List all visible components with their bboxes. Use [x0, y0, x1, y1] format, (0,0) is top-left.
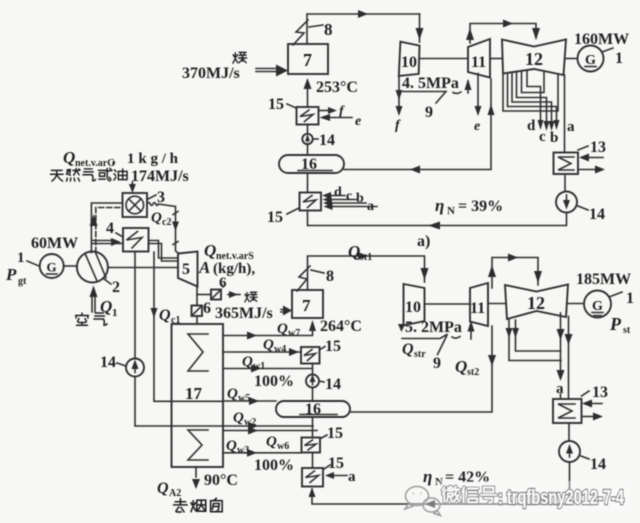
wire: turbine 10 exhaust arrow f (top cycle) [395, 77, 403, 134]
wire: feedwater into boiler 253°C (top cycle) [304, 78, 358, 107]
fuel feeder box 6 (coal branch) with 煤 [197, 275, 257, 302]
glyph 信 (watermark-2) [462, 487, 477, 502]
shaft wire 12-G (top cycle) [566, 58, 578, 60]
turbine 5 (gas turbine expander) [178, 252, 198, 287]
glyph 煤 (coal, bottom cycle) [245, 292, 257, 302]
turbine 11 (top cycle IP) [468, 39, 490, 78]
air duct wire: branch to heat exchanger 4 [92, 238, 123, 246]
turbine 12 (bottom cycle LP double-flow) [505, 285, 568, 320]
wire: deaerator 16 to turbine 11 (bottom cycle) [350, 326, 496, 412]
wire: boiler top to HP turbine 10 (main steam, top cycle) [307, 10, 424, 44]
label eta_N = 39% (top cycle efficiency) [435, 196, 503, 217]
shaft wire 10-11 (bottom cycle) [425, 303, 471, 305]
label block Qnet.v.arG 1kg/h / 天然气或油 174MJ/s [50, 148, 188, 185]
heater 15 (bottom cycle mid) [302, 417, 344, 468]
shaft wire 11-12 (bottom cycle) [488, 303, 505, 305]
shaft wire G-compressor [64, 265, 77, 267]
wire: reheat line 11 to 12 (bottom cycle) [488, 254, 542, 289]
glyph 去 (to chimney-1) [174, 499, 188, 512]
label Qw6 [266, 434, 289, 452]
wire Qw5 into deaerator [223, 386, 276, 405]
turbine 10 (bottom cycle HP) [404, 284, 425, 326]
label Qnet.v.arS / A (kg/h) [198, 241, 255, 277]
heat exchanger 4 (fuel preheater) [106, 220, 149, 252]
label Qc1 (flue gas heat) [159, 307, 180, 326]
compressor 2 (gas turbine) [77, 252, 120, 297]
chimney 8 (top cycle) [293, 20, 333, 45]
flue gas outlet 90°C 去烟囱 QA2 [157, 467, 238, 512]
label 365MJ/s with double arrow into boiler 7 [215, 305, 292, 322]
glyph 气 (natural gas-3) [83, 169, 96, 181]
shaft wire 12-G (bottom cycle) [568, 303, 584, 305]
pump 14 (bottom cycle right) [559, 423, 606, 473]
label Qst2 [455, 357, 479, 378]
feedwater wire + pump 14 (bottom cycle far left) [100, 252, 223, 427]
shaft wire 11-12 (top cycle) [490, 58, 502, 60]
watermark text 微信号: trqfbsny2012-7-4 [442, 486, 624, 509]
feedwater heater 15 (top cycle upper) [268, 96, 361, 129]
glyph 空 (air-1) [76, 313, 89, 325]
condensate heater 15 (bottom cycle third) [302, 455, 356, 487]
wire: turbine 11 extraction arrow e (top cycle) [474, 74, 482, 135]
chimney 8 (bottom cycle) [297, 266, 334, 291]
generator G 185MW (bottom cycle) [576, 271, 634, 336]
generator G 160MW (top cycle) [574, 31, 629, 72]
glyph 气 (air-2) [94, 313, 107, 325]
glyph 或 (natural gas-4) [98, 168, 112, 181]
wire Qw4 into upper heater [223, 337, 301, 356]
deaerator 16 (top cycle) [279, 155, 344, 173]
glyph 天 (natural gas-1) [50, 170, 63, 181]
wire Qw1 [223, 354, 311, 373]
wire: bottom return line (top cycle condensate) [308, 213, 567, 230]
fuel feeder box 6 (on flue duct) [192, 300, 212, 317]
extraction loop under turbine 12 (bottom cycle) [506, 313, 573, 399]
condenser / heat exchanger 13 (bottom cycle) [553, 384, 608, 423]
label 4.5MPa with pointer 9 (top cycle) [402, 75, 472, 121]
shaft wire 10-11 (top cycle) [420, 58, 469, 60]
air inlet arrow 空气 Q1 [76, 286, 118, 326]
wire: turbine 10 exhaust Qstr (bottom cycle) [398, 324, 426, 360]
glyph 号 (watermark-3) [481, 487, 496, 502]
wire: deaerator to turbine 11 (top cycle) [344, 79, 495, 174]
hot gas wire Qc2: combustor to turbine 5 [147, 202, 179, 253]
glyph 煤 (coal) [233, 52, 247, 63]
pump 14 (top cycle left small) [302, 125, 335, 156]
extraction manifold under turbine 12 (top cycle) [503, 71, 575, 147]
flue gas wire: turbine 5 down to HRSG [196, 287, 198, 325]
glyph 囱 (to chimney-3) [211, 498, 223, 511]
turbine 11 (bottom cycle IP) [470, 283, 488, 326]
glyph 烟 (to chimney-2) [191, 500, 206, 512]
turbine 12 (top cycle LP double-flow) [502, 40, 566, 76]
shaft wire compressor-turbine 5 [108, 267, 178, 269]
combustor 3 (gas turbine) [123, 189, 166, 217]
wire Qw3 from HRSG [223, 438, 301, 457]
heater 15 (bottom cycle upper) + pump 14 [301, 338, 341, 401]
air wire: heat exchanger 4 to turbine 5 (double line) [149, 241, 179, 262]
HRSG 17 (heat recovery steam generator) [172, 324, 224, 467]
wire: turbine 12 exhaust down to condenser 13 (top cycle) [564, 75, 566, 153]
coal input 370MJ/s (top cycle) [182, 52, 288, 82]
wire Qst1: boiler to turbine 10 (bottom cycle) [308, 242, 429, 290]
fuel arrow into combustor 3 [129, 182, 136, 193]
air duct wire: compressor to combustor 3 (solid+dashed) [90, 203, 123, 253]
boiler 7 (bottom cycle) [292, 290, 323, 318]
pump 14 (top cycle right) [556, 174, 605, 223]
wire Qw7: HRSG to boiler feed 264°C [223, 318, 362, 340]
generator G 60MW (gas turbine) [5, 235, 78, 287]
watermark WeChat icon [405, 487, 441, 516]
turbine 10 (top cycle HP) [399, 42, 420, 76]
watermark band [405, 481, 630, 516]
glyph 油 (natural gas-5) [114, 169, 127, 180]
boiler 7 (top cycle) [288, 44, 328, 74]
label eta_N = 42% (bottom cycle efficiency) [423, 467, 490, 488]
glyph 然 (natural gas-2) [66, 168, 80, 181]
feedwater heater 15 (top cycle lower) [267, 173, 321, 226]
label 5.2MPa with pointer 9 (bottom cycle) [402, 319, 475, 372]
glyph 微 (watermark-1) [442, 486, 459, 501]
feed wire: from exchanger 4 down through HRSG to Qw5 line [151, 252, 224, 401]
wire: bottom return line (bottom cycle condensate) [309, 462, 570, 508]
wire: reheat line 11 to 12 (top cycle) [466, 20, 540, 44]
extraction stubs d c b a into heater (top cycle) [322, 185, 377, 214]
deaerator 16 (bottom cycle) [276, 401, 350, 418]
wires Qw2 / lower feed lines from HRSG [223, 410, 317, 435]
condenser / heat exchanger 13 (top cycle) [554, 139, 607, 174]
